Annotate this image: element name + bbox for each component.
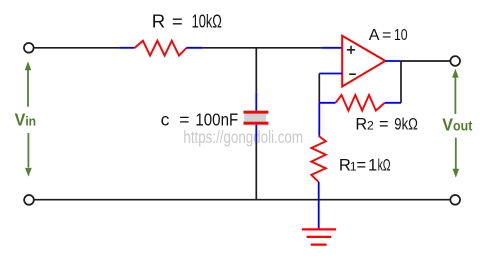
svg-text:9kΩ: 9kΩ xyxy=(394,116,418,134)
wire: output rail xyxy=(401,60,450,62)
capacitor C xyxy=(244,111,269,125)
wire: capacitor branch lower xyxy=(255,125,257,200)
wire: top rail middle xyxy=(203,47,322,49)
svg-text:R: R xyxy=(355,116,367,134)
svg-text:A: A xyxy=(369,26,380,44)
terminal: output top xyxy=(450,56,460,66)
arrow: Vin up xyxy=(25,61,32,106)
label: R = 10kΩ xyxy=(152,11,222,32)
terminal: input bottom xyxy=(24,195,34,205)
resistor R1 xyxy=(311,136,326,200)
wire: op-amp - input lead xyxy=(319,73,342,75)
svg-text:R: R xyxy=(152,11,165,32)
arrow: Vin down xyxy=(25,133,32,177)
wire: ground lead xyxy=(318,200,320,229)
wire: capacitor branch upper xyxy=(255,48,257,111)
label: R2 = 9kΩ xyxy=(355,116,418,134)
wire: bottom rail xyxy=(35,199,450,201)
op-amp U1 xyxy=(342,36,385,87)
resistor R xyxy=(119,41,203,56)
svg-text:10: 10 xyxy=(394,26,408,44)
wire: feedback vertical from output xyxy=(400,61,402,103)
svg-text:10kΩ: 10kΩ xyxy=(192,11,222,32)
svg-text:https://gongdoli.com: https://gongdoli.com xyxy=(183,127,303,147)
svg-text:kΩ: kΩ xyxy=(378,155,391,174)
wire: op-amp + input lead xyxy=(322,47,343,49)
terminal: output bottom xyxy=(450,195,460,205)
svg-text:Vout: Vout xyxy=(442,115,473,135)
arrow: Vout up xyxy=(452,69,459,114)
svg-text:=: = xyxy=(379,116,389,134)
svg-text:c: c xyxy=(161,110,170,130)
terminal: input top xyxy=(24,43,34,53)
label: c = 100nF xyxy=(161,110,239,130)
svg-text:Vin: Vin xyxy=(15,110,36,130)
svg-text:=: = xyxy=(357,155,367,174)
wire: op-amp output lead xyxy=(385,60,400,62)
label: A = 10 xyxy=(369,26,408,44)
resistor R2 xyxy=(319,95,401,111)
ground xyxy=(302,229,336,244)
arrow: Vout down xyxy=(453,138,460,178)
svg-text:=: = xyxy=(172,11,183,32)
wire: top rail left xyxy=(34,47,119,49)
svg-text:2: 2 xyxy=(367,119,374,133)
wire: inverting node vertical xyxy=(318,74,320,137)
svg-text:1: 1 xyxy=(368,155,377,174)
label: R1 = 1kΩ xyxy=(339,155,391,174)
svg-text:=: = xyxy=(382,26,391,44)
